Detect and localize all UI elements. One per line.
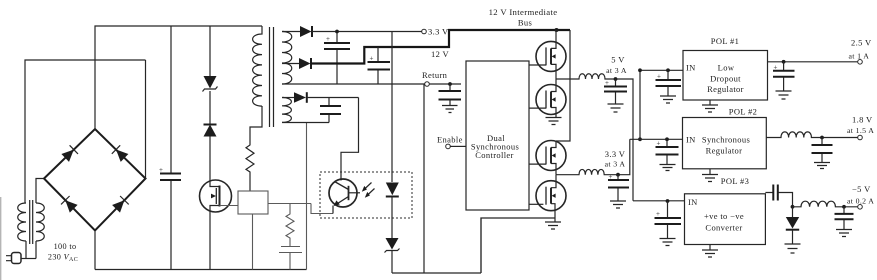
POL1 output cap C10 <box>773 60 795 91</box>
svg-text:+: + <box>774 64 778 72</box>
ground <box>814 163 830 169</box>
gate wire Q6 <box>529 203 543 205</box>
svg-text:2.5 V: 2.5 V <box>851 38 872 48</box>
svg-text:POL #1: POL #1 <box>711 36 739 46</box>
POL #2 box U4 <box>683 118 767 169</box>
ground <box>660 165 676 171</box>
AC plug P1 <box>6 253 21 264</box>
svg-text:+: + <box>370 55 374 63</box>
svg-text:+: + <box>657 73 661 81</box>
MOSFET Q1 <box>200 180 232 270</box>
POL #1 box U3 <box>683 51 768 101</box>
bridge diode D2 (top-right) <box>112 145 129 162</box>
gate wire Q5 <box>529 163 546 165</box>
POL2 input cap C11 <box>656 137 679 164</box>
filter cap C4 <box>368 47 391 84</box>
wire choke left top to top-left rail <box>25 60 146 203</box>
wire choke bottoms to plug wire <box>26 241 36 259</box>
clamp zener Z1 <box>203 26 218 92</box>
svg-text:+: + <box>605 79 609 87</box>
svg-text:Low: Low <box>718 63 735 73</box>
secondary ground rail <box>392 272 481 274</box>
POL2 input wire <box>630 138 683 140</box>
gate wire Q4 <box>529 107 546 109</box>
svg-text:3.3 V: 3.3 V <box>605 149 626 159</box>
bridge diode D3 (bottom-left) <box>61 196 78 213</box>
POL3 output series cap C14 <box>765 185 792 207</box>
EMI choke/transformer T1 <box>18 200 45 244</box>
wire bridge bottom vertex to ground rail <box>94 231 96 270</box>
wire plug to choke <box>21 258 36 260</box>
wire aux to opto collector <box>341 98 359 181</box>
svg-text:12 V Intermediate: 12 V Intermediate <box>489 7 558 17</box>
ground under Q6 <box>545 222 561 229</box>
MOSFET Q6 (low side 3.3V) <box>536 175 566 222</box>
output cap C7 <box>604 79 627 104</box>
ground <box>785 244 801 253</box>
POL3 input cap C13 <box>655 199 682 238</box>
ground under POL3 <box>709 245 711 251</box>
light arrows <box>362 183 375 198</box>
output inductor L4 <box>793 201 858 207</box>
svg-text:Bus: Bus <box>518 18 532 28</box>
filter cap C3 <box>324 30 350 84</box>
controller box U2 <box>466 61 529 210</box>
gate wire Q3 <box>529 64 546 66</box>
bridge rectifier edges <box>44 129 146 231</box>
svg-text:at 0.2 A: at 0.2 A <box>847 197 874 206</box>
bypass cap C5 <box>439 84 462 106</box>
svg-text:+: + <box>326 35 330 43</box>
svg-text:IN: IN <box>688 197 698 207</box>
svg-text:3.3 V: 3.3 V <box>428 27 449 37</box>
T2 secondary winding A (center tapped) <box>282 32 292 85</box>
optocoupler dashed box <box>320 172 412 218</box>
return rail <box>282 83 461 85</box>
POL #3 box U5 <box>685 194 766 245</box>
rectifier diode D7 (12V tap) <box>282 58 311 69</box>
resistor R2 <box>286 204 294 247</box>
wire U1 bottom to ground rail <box>252 214 254 270</box>
svg-text:Controller: Controller <box>475 150 513 160</box>
3.3V terminal <box>422 29 427 34</box>
svg-text:IN: IN <box>686 63 696 73</box>
resistor R1 <box>246 142 254 191</box>
svg-text:at 3 A: at 3 A <box>606 66 627 75</box>
PWM controller U1 <box>238 191 268 214</box>
svg-text:POL #2: POL #2 <box>729 107 757 117</box>
bridge diode D1 (top-left) <box>61 145 78 162</box>
ground <box>836 230 852 237</box>
ground <box>608 104 624 112</box>
svg-text:1.8 V: 1.8 V <box>852 115 873 125</box>
svg-text:IN: IN <box>686 135 696 145</box>
wire ground rail to mosfet source <box>481 218 555 273</box>
svg-text:+: + <box>657 140 661 148</box>
rectifier diode D6 (3.3V) <box>282 26 422 37</box>
primary ground rail <box>95 269 307 271</box>
capacitor C2 <box>279 247 302 270</box>
bridge diode D4 (bottom-right) <box>112 196 129 213</box>
aux bottom wire <box>282 122 329 124</box>
opto LED D9 <box>386 32 399 239</box>
wire bridge top vertex to top rail <box>95 26 262 129</box>
wire bridge right vertex up to y60 rail <box>145 60 147 179</box>
POL2 output with inductor L3 <box>766 132 857 138</box>
svg-text:Converter: Converter <box>705 223 742 233</box>
svg-text:+ve to −ve: +ve to −ve <box>704 211 744 221</box>
transformer core <box>270 27 274 127</box>
wire choke right top to bridge left vertex <box>36 179 44 204</box>
svg-text:−5 V: −5 V <box>852 184 871 194</box>
svg-text:Return: Return <box>422 70 448 80</box>
return drop wires <box>423 84 425 273</box>
phase wire 1 with inductor L1 <box>556 74 633 201</box>
svg-text:5 V: 5 V <box>611 55 625 65</box>
svg-text:+: + <box>609 173 613 181</box>
svg-text:Dropout: Dropout <box>710 73 741 83</box>
svg-text:at 1 A: at 1 A <box>849 52 870 61</box>
feedback wire U1 to opto <box>268 204 333 214</box>
rectifier diode D8 (aux) <box>282 92 359 103</box>
svg-text:12 V: 12 V <box>431 49 450 59</box>
ground under Q4 <box>546 118 562 125</box>
svg-text:Regulator: Regulator <box>706 146 743 156</box>
MOSFET Q4 (low side 5V) <box>536 79 566 118</box>
aux return wire <box>306 123 308 270</box>
output cap C8 <box>608 173 629 201</box>
ground <box>610 201 626 208</box>
gate wire Q1 to PWM box <box>220 205 239 207</box>
svg-text:Regulator: Regulator <box>707 84 744 94</box>
POL1 feed bracket <box>640 70 683 139</box>
MOSFET Q5 (high side 3.3V) <box>536 141 566 175</box>
POL3 input wire <box>633 200 685 202</box>
ground <box>442 106 458 113</box>
SEC_LEFT <box>0 197 2 280</box>
MOSFET Q3 (high side 5V) <box>536 30 566 79</box>
svg-text:at 3 A: at 3 A <box>605 160 626 169</box>
svg-text:at 1.5 A: at 1.5 A <box>847 126 874 135</box>
phase wire 2 with inductor L2 <box>556 139 630 174</box>
POL1 output wire <box>768 61 858 63</box>
12V intermediate bus thick path <box>311 30 570 64</box>
svg-text:Enable: Enable <box>437 135 463 145</box>
flyback transformer T2 primary <box>253 26 262 106</box>
ground under POL1 <box>709 100 711 105</box>
ground <box>660 239 676 246</box>
POL1 input cap C9 <box>656 68 682 96</box>
primary bottom lead to resistor <box>250 106 262 142</box>
POL3 output cap C15 <box>835 205 854 230</box>
opto phototransistor Q2 <box>329 179 360 214</box>
ground <box>660 96 676 103</box>
catch diode D10 <box>786 205 799 244</box>
svg-text:+: + <box>656 210 660 218</box>
svg-text:+: + <box>159 166 163 174</box>
bulk capacitor C1 <box>159 26 181 270</box>
ground under POL2 <box>709 169 711 175</box>
POL2 output cap C12 <box>812 136 833 163</box>
ground <box>776 91 792 99</box>
svg-text:100 to: 100 to <box>54 242 77 251</box>
svg-text:Synchronous: Synchronous <box>702 135 750 145</box>
zener Z2 <box>385 238 400 273</box>
aux filter cap C6 <box>320 98 341 123</box>
clamp diode D5 <box>204 91 217 181</box>
svg-text:POL #3: POL #3 <box>721 176 749 186</box>
T2 secondary winding B <box>282 98 291 123</box>
bus junction <box>555 28 559 32</box>
bus drop to lower bridge <box>556 30 570 141</box>
